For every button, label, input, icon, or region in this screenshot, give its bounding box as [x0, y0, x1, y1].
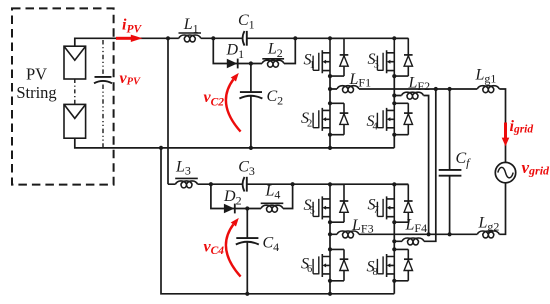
svg-text:String: String [16, 83, 56, 102]
svg-text:PV: PV [26, 65, 47, 84]
